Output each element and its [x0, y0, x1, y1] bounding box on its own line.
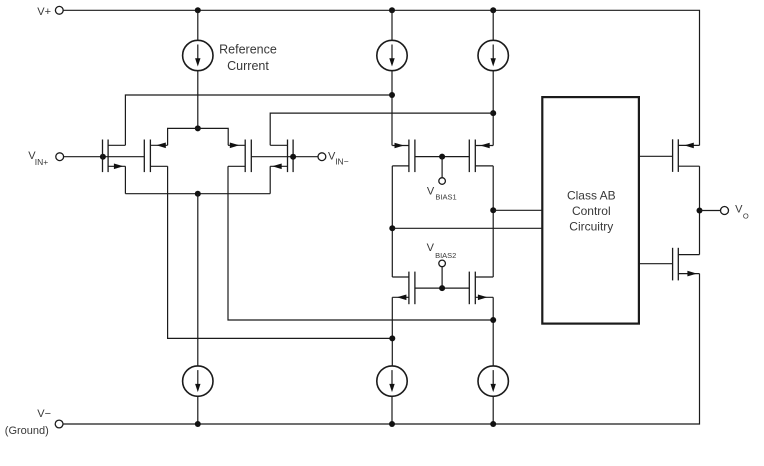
current source I5	[377, 366, 407, 396]
node junction bottom rail / I4	[195, 421, 201, 427]
node junction top rail / reference current	[195, 7, 201, 13]
terminal VBIAS1	[427, 178, 457, 202]
svg-text:Current: Current	[227, 59, 269, 73]
transistor M4 input NMOS right	[270, 140, 293, 173]
wire class AB box to M10 gate	[639, 263, 673, 265]
wire M3 drain down to right summing wire	[228, 166, 493, 320]
wire V+ to current source I2	[391, 10, 393, 40]
svg-text:BIAS2: BIAS2	[435, 251, 456, 260]
wire I4 to bottom rail	[197, 396, 199, 424]
node junction M8 source / M3 drain wire	[490, 317, 496, 323]
node junction VBIAS2	[439, 285, 445, 291]
svg-text:BIAS1: BIAS1	[435, 192, 456, 201]
terminal VIN+	[28, 150, 63, 167]
wire NMOS tail down to current source I4	[197, 194, 199, 366]
node junction top rail / current source I3	[490, 7, 496, 13]
wire M1 drain up to summing wire	[125, 95, 392, 145]
transistor M8 cascode NMOS right (VBIAS2)	[469, 272, 493, 305]
node junction NMOS tail	[195, 191, 201, 197]
current source I6	[478, 366, 508, 396]
terminal V-	[5, 408, 63, 437]
class AB control circuitry box U1	[542, 97, 639, 324]
wire junction to class AB box upper input	[493, 209, 542, 211]
wire M4 source down to NMOS tail	[269, 166, 271, 193]
wire top rail V+	[63, 10, 699, 145]
node junction VIN- / M4 gate	[290, 154, 296, 160]
node output junction	[697, 208, 703, 214]
wire VBIAS1 gate bus	[415, 156, 469, 158]
wire PMOS pair tail	[168, 128, 229, 145]
svg-text:Reference: Reference	[219, 43, 277, 57]
wire M2 drain down to left summing wire	[168, 166, 392, 338]
node junction VBIAS1	[439, 154, 445, 160]
node junction bottom rail / I6	[490, 421, 496, 427]
node junction I3 / M4 drain wire	[490, 110, 496, 116]
wire VIN+ to M1/M2 gates	[64, 156, 145, 158]
svg-text:IN−: IN−	[335, 156, 349, 166]
wire V+ to current source I3	[492, 10, 494, 40]
terminal VIN-	[318, 150, 349, 166]
wire M4 drain up to summing wire	[270, 113, 493, 145]
wire bottom rail V-	[63, 274, 700, 424]
wire class AB box to M9 gate	[639, 155, 673, 157]
wire I3 down to M6 drain	[492, 71, 494, 146]
wire M7 source down to current source I5	[391, 297, 393, 366]
wire I5 to bottom rail	[391, 396, 393, 424]
wire M3/M4 gates to VIN- terminal	[251, 156, 318, 158]
transistor M2 input PMOS left	[144, 140, 167, 173]
node junction M5-M7 wire / class AB input	[389, 225, 395, 231]
wire NMOS pair bottom tail	[125, 193, 270, 195]
wire I6 to bottom rail	[492, 396, 494, 424]
wire I2 down to M5 drain	[391, 71, 393, 146]
wire output node to VO terminal	[700, 210, 721, 212]
wire V+ to reference current source	[197, 10, 199, 40]
node junction M6-M8 wire / class AB input	[490, 207, 496, 213]
transistor M6 cascode PMOS right (VBIAS1)	[469, 140, 493, 173]
svg-text:V+: V+	[37, 6, 51, 18]
transistor M9 output PMOS	[673, 139, 700, 172]
svg-text:IN+: IN+	[35, 157, 49, 167]
svg-text:Control: Control	[572, 204, 611, 218]
wire VBIAS2 gate bus	[415, 287, 469, 289]
wire VBIAS2 stem	[441, 267, 443, 288]
transistor M5 cascode PMOS left (VBIAS1)	[392, 140, 415, 173]
current source I3	[478, 40, 508, 70]
current source I4	[183, 366, 213, 396]
wire M8 source down to current source I6	[492, 297, 494, 366]
wire M1 source down to NMOS tail	[124, 166, 126, 193]
svg-text:Class AB: Class AB	[567, 189, 616, 203]
node junction M7 source / M2 drain wire	[389, 335, 395, 341]
node junction I2 / M1 drain wire	[389, 92, 395, 98]
transistor M3 input PMOS right	[228, 140, 251, 173]
wire junction to class AB box lower input	[392, 227, 542, 229]
transistor M10 output NMOS	[673, 248, 700, 281]
wire M6 source down to M8	[492, 166, 494, 277]
svg-text:O: O	[743, 212, 749, 221]
svg-text:Circuitry: Circuitry	[569, 220, 613, 234]
terminal V+	[37, 6, 63, 18]
transistor M1 input NMOS left	[103, 140, 126, 173]
svg-text:V: V	[735, 204, 743, 216]
terminal VO	[721, 204, 749, 221]
current source I1 reference current	[183, 40, 277, 73]
svg-text:V: V	[427, 185, 435, 197]
node junction top rail / current source I2	[389, 7, 395, 13]
wire VBIAS1 stem	[441, 157, 443, 178]
transistor M7 cascode NMOS left (VBIAS2)	[392, 272, 415, 305]
terminal VBIAS2	[427, 242, 457, 267]
wire M9 drain to output node to M10 drain	[699, 166, 701, 254]
node tail junction	[195, 125, 201, 131]
wire M5 source down to M7	[391, 166, 393, 277]
wire reference current to input PMOS tail node	[197, 71, 199, 129]
svg-text:(Ground): (Ground)	[5, 425, 49, 437]
svg-text:V−: V−	[37, 408, 51, 420]
node junction bottom rail / I5	[389, 421, 395, 427]
node junction VIN+ / M1 gate	[100, 154, 106, 160]
current source I2	[377, 40, 407, 70]
svg-text:V: V	[427, 242, 435, 254]
